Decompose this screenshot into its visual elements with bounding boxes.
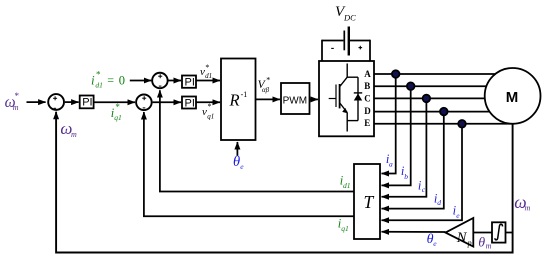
IGBT symbol inside inverter (329, 64, 358, 132)
svg-text:A: A (364, 69, 371, 79)
svg-text:p: p (467, 239, 472, 248)
wire T output i_q1 feedback to summer S3 (144, 112, 354, 216)
label i_q1 (338, 216, 349, 233)
label i_d (434, 192, 441, 207)
junction dot phase E (458, 120, 466, 128)
label i_c (418, 179, 426, 194)
svg-text:m: m (525, 204, 531, 213)
svg-text:D: D (364, 106, 371, 116)
svg-text:d1: d1 (95, 81, 103, 90)
svg-text:T: T (364, 192, 375, 212)
block R^-1 inverse rotation transform (221, 59, 256, 141)
freewheeling diode (354, 77, 362, 120)
wire id1*=0 to summer S2 (130, 80, 152, 82)
phase terminal labels A B C D E (364, 69, 371, 128)
svg-text:*: * (208, 102, 212, 111)
wire phase D (374, 111, 491, 113)
wire PI3 to R-1 with label v*q1 (196, 101, 220, 103)
wire S1 to PI1 (65, 101, 79, 103)
label i_b (401, 164, 408, 181)
svg-text:d1: d1 (343, 181, 351, 190)
wire R-1 to PWM with label V*ab (256, 98, 280, 100)
svg-text:-1: -1 (241, 90, 248, 99)
wire current tap i_c to T (382, 98, 427, 196)
wire PWM to inverter (310, 98, 318, 100)
wire motor shaft omega_m feedback to summer S1 (56, 112, 512, 253)
svg-text:θ: θ (233, 154, 240, 170)
junction dot phase B (407, 82, 415, 90)
svg-text:M: M (506, 89, 519, 106)
svg-text:b: b (404, 172, 408, 181)
node iq1* label (111, 102, 122, 122)
svg-text:m: m (13, 103, 19, 112)
wire input arrow to summer S1 (27, 101, 46, 103)
wire T output i_d1 feedback to summer S2 (160, 90, 354, 191)
svg-text:*: * (205, 63, 209, 72)
svg-text:q1: q1 (341, 224, 349, 233)
svg-text:PI: PI (185, 77, 195, 89)
block PWM (281, 83, 310, 114)
svg-text:0: 0 (119, 74, 125, 88)
label omega_m near S1 (60, 119, 77, 139)
svg-text:m: m (486, 242, 492, 251)
label omega_m right (514, 192, 530, 213)
label i_e (453, 203, 461, 220)
wire current tap i_d to T (382, 112, 444, 209)
summer S1 (48, 94, 64, 110)
svg-text:*: * (96, 70, 101, 80)
svg-text:N: N (456, 230, 468, 246)
svg-text:d: d (437, 198, 441, 207)
wire Np output theta_e to T (382, 231, 446, 233)
wire integrator to Np gain, label theta_m (474, 232, 492, 234)
wire current tap i_e to T (382, 124, 463, 221)
wire PI2 to R-1 with label v*d1 (196, 80, 220, 82)
battery and DC-link (322, 27, 370, 62)
summer S3 (136, 95, 152, 111)
wire S2 to PI2 (168, 80, 181, 82)
label i_d1 (340, 174, 351, 191)
node id1*=0 label (91, 70, 125, 90)
battery V_DC label (335, 4, 356, 23)
gain Np pole pairs triangle (446, 218, 474, 248)
svg-text:PI: PI (82, 97, 92, 109)
svg-text:DC: DC (343, 12, 356, 22)
wire phase B (374, 85, 488, 87)
svg-text:d1: d1 (205, 72, 212, 80)
summer S2 (152, 73, 168, 89)
wire phase C (374, 97, 486, 99)
svg-text:q1: q1 (207, 113, 214, 121)
PI controller PI2 (d-axis) (182, 76, 196, 89)
PI controller PI3 (q-axis) (182, 97, 196, 110)
block T transformation (354, 164, 380, 239)
wire phase E (374, 123, 510, 125)
svg-text:q1: q1 (114, 113, 122, 122)
block integrator (492, 222, 506, 242)
wire omega_m to integrator (506, 232, 513, 234)
svg-text:i: i (91, 73, 95, 88)
svg-text:θ: θ (478, 236, 485, 251)
PI controller PI1 (speed loop) (80, 96, 94, 109)
svg-text:B: B (364, 81, 370, 91)
label i_a (386, 152, 393, 169)
svg-text:*: * (15, 91, 20, 101)
svg-text:a: a (389, 160, 393, 169)
svg-text:αβ: αβ (262, 86, 270, 94)
svg-text:R: R (229, 91, 240, 110)
svg-text:C: C (364, 94, 371, 104)
wire current tap i_b to T (382, 86, 411, 185)
junction dot phase C (423, 95, 431, 103)
motor M (485, 68, 541, 124)
junction dot phase A (392, 70, 400, 78)
theta_e input arrow to R-1 (236, 142, 238, 156)
svg-text:PI: PI (185, 97, 195, 109)
wire current tap i_a to T (382, 74, 396, 174)
wire PI1 to summer S3 (94, 101, 135, 103)
block five-phase inverter (319, 61, 374, 136)
junction dot phase D (440, 108, 448, 116)
wire phase A (374, 73, 497, 75)
wire S3 to PI3 (153, 101, 181, 103)
label theta_e near T (427, 232, 438, 248)
node omega_m* reference label (5, 91, 20, 112)
svg-text:*: * (115, 102, 120, 112)
svg-text:*: * (266, 76, 270, 85)
svg-text:=: = (107, 73, 114, 87)
svg-text:E: E (364, 118, 370, 128)
svg-text:PWM: PWM (283, 95, 307, 106)
svg-text:m: m (71, 130, 77, 139)
